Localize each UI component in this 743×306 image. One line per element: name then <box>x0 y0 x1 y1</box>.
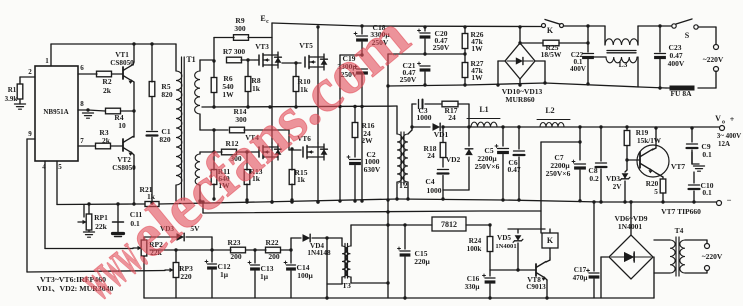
svg-text:2: 2 <box>28 68 32 76</box>
svg-text:5: 5 <box>654 188 658 196</box>
svg-text:C17: C17 <box>574 266 587 274</box>
svg-text:~220V: ~220V <box>703 55 724 64</box>
svg-text:R19: R19 <box>636 129 649 137</box>
svg-text:L2: L2 <box>545 106 554 115</box>
svg-text:RP1: RP1 <box>94 213 108 222</box>
svg-text:200: 200 <box>230 252 242 261</box>
svg-text:3.9k: 3.9k <box>5 95 18 103</box>
svg-text:5: 5 <box>58 163 62 171</box>
svg-text:2V: 2V <box>613 183 623 191</box>
svg-text:c: c <box>266 19 269 25</box>
svg-text:T3: T3 <box>342 281 351 290</box>
svg-text:250V×6: 250V×6 <box>546 169 571 178</box>
svg-text:100μ: 100μ <box>297 271 313 280</box>
svg-text:1N4001: 1N4001 <box>618 222 642 231</box>
svg-text:R7 300: R7 300 <box>223 47 246 56</box>
svg-text:L1: L1 <box>479 105 488 114</box>
svg-text:VT3: VT3 <box>255 43 269 51</box>
svg-text:1N4001: 1N4001 <box>495 243 516 250</box>
svg-text:1μ: 1μ <box>260 272 269 281</box>
svg-text:1W: 1W <box>222 90 234 99</box>
svg-text:820: 820 <box>159 135 171 144</box>
svg-text:330μ: 330μ <box>465 283 480 291</box>
svg-text:T2: T2 <box>398 181 407 190</box>
svg-text:T4: T4 <box>675 226 684 235</box>
svg-text:220μ: 220μ <box>414 257 430 266</box>
svg-text:R23: R23 <box>228 238 241 247</box>
svg-text:24: 24 <box>427 151 435 160</box>
svg-text:1000: 1000 <box>427 186 442 195</box>
svg-text:R22: R22 <box>266 238 279 247</box>
svg-text:1000: 1000 <box>417 113 432 122</box>
svg-text:C9013: C9013 <box>526 283 546 291</box>
svg-text:10: 10 <box>118 121 126 130</box>
svg-text:VD3: VD3 <box>606 175 620 183</box>
svg-text:15k/1W: 15k/1W <box>637 137 662 145</box>
svg-text:1W: 1W <box>471 73 483 82</box>
svg-text:VT5: VT5 <box>299 42 313 50</box>
svg-text:0.1: 0.1 <box>702 150 712 159</box>
svg-text:R1: R1 <box>8 86 17 94</box>
svg-text:0.2: 0.2 <box>589 174 599 183</box>
svg-text:V: V <box>715 114 721 123</box>
svg-text:K: K <box>547 236 554 245</box>
svg-text:470μ: 470μ <box>573 274 588 282</box>
svg-text:220: 220 <box>180 272 192 281</box>
svg-text:−: − <box>727 195 732 205</box>
svg-text:300: 300 <box>234 24 246 33</box>
svg-text:7: 7 <box>80 137 84 145</box>
svg-text:o: o <box>722 120 725 126</box>
svg-text:250V×6: 250V×6 <box>475 162 500 171</box>
svg-text:T1: T1 <box>186 55 195 64</box>
svg-text:S: S <box>685 31 690 40</box>
svg-text:7812: 7812 <box>441 220 457 229</box>
svg-text:C16: C16 <box>467 275 480 283</box>
svg-text:18/5W: 18/5W <box>541 50 562 59</box>
svg-text:3~ 400V: 3~ 400V <box>717 132 741 140</box>
svg-text:VD2: VD2 <box>446 155 461 164</box>
svg-text:1k: 1k <box>297 175 306 184</box>
svg-text:0.1: 0.1 <box>702 188 712 197</box>
svg-text:400V: 400V <box>570 65 587 73</box>
svg-text:1μ: 1μ <box>220 270 229 279</box>
svg-text:L3: L3 <box>619 60 628 69</box>
svg-text:FU 8A: FU 8A <box>670 89 692 98</box>
svg-text:9: 9 <box>28 130 32 138</box>
svg-text:12A: 12A <box>718 140 730 148</box>
svg-text:2k: 2k <box>103 86 112 95</box>
svg-text:6: 6 <box>80 64 84 72</box>
svg-text:CS8050: CS8050 <box>112 164 136 172</box>
svg-text:820: 820 <box>161 90 173 99</box>
svg-text:250V: 250V <box>433 43 450 52</box>
svg-text:VT2: VT2 <box>117 156 131 164</box>
svg-text:1W: 1W <box>471 44 483 53</box>
svg-text:400V: 400V <box>668 59 685 68</box>
svg-text:1k: 1k <box>252 84 261 93</box>
svg-text:VT1: VT1 <box>115 51 129 59</box>
svg-text:VT7 TIP660: VT7 TIP660 <box>661 207 701 216</box>
svg-text:2k: 2k <box>102 136 111 145</box>
svg-text:200: 200 <box>268 252 280 261</box>
svg-text:1: 1 <box>45 57 49 65</box>
svg-text:E: E <box>260 14 265 23</box>
svg-text:0.47: 0.47 <box>507 165 520 174</box>
svg-text:~220V: ~220V <box>702 252 723 261</box>
svg-text:8: 8 <box>80 100 84 108</box>
svg-text:630V: 630V <box>364 165 381 174</box>
svg-text:24: 24 <box>448 113 456 122</box>
svg-text:VT7: VT7 <box>671 162 685 171</box>
svg-text:C4: C4 <box>425 177 434 186</box>
svg-text:R24: R24 <box>469 237 482 245</box>
svg-text:2W: 2W <box>361 136 373 145</box>
svg-text:R20: R20 <box>646 180 659 188</box>
svg-text:VD1: VD1 <box>434 130 449 139</box>
svg-text:250V: 250V <box>400 75 417 84</box>
svg-text:MUR860: MUR860 <box>505 95 534 104</box>
svg-text:K: K <box>547 26 554 35</box>
svg-text:NB951A: NB951A <box>43 108 68 116</box>
svg-text:+: + <box>730 115 735 124</box>
svg-text:VD5: VD5 <box>497 234 511 242</box>
svg-text:100k: 100k <box>467 245 482 253</box>
svg-text:R2: R2 <box>102 77 111 86</box>
